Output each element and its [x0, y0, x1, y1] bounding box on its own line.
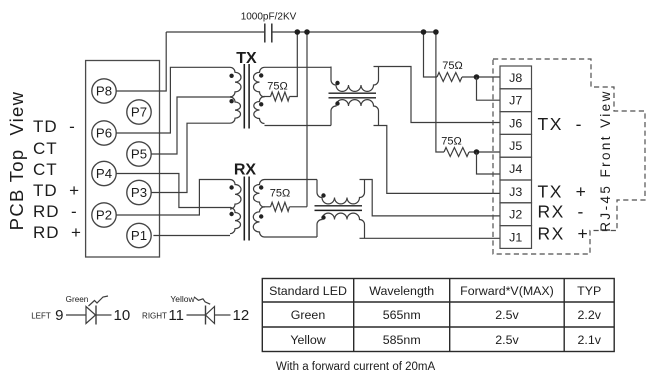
RJ-45 jack dashed outline [493, 59, 645, 254]
svg-text:TYP: TYP [577, 284, 601, 298]
wire P5 to TX primary center tap [151, 97, 231, 154]
svg-text:75Ω: 75Ω [270, 188, 290, 200]
pin P6 [92, 121, 116, 145]
svg-text:TD -: TD - [33, 117, 76, 136]
transformer T2 RX secondary winding upper half [253, 180, 264, 208]
wire TX secondary center tap to resistor R1 [264, 96, 271, 98]
wire RX secondary center tap to resistor R2 [264, 206, 271, 208]
wire R1 to top rail [290, 32, 298, 97]
svg-text:TX -: TX - [538, 114, 583, 134]
wire rail end down to resistor R4 [436, 32, 444, 152]
connector pin J7 [500, 89, 532, 112]
wire R4 to J5 [469, 151, 500, 153]
transformer T1 TX primary winding upper half [230, 67, 241, 97]
svg-text:P7: P7 [131, 104, 147, 119]
connector pin J8 [500, 66, 532, 89]
svg-text:PCB Top View: PCB Top View [6, 91, 27, 231]
resistor R1 75 ohm (TX) [271, 92, 290, 101]
svg-text:With a forward current of 20mA: With a forward current of 20mA [276, 361, 435, 373]
resistor R2 75 ohm (RX) [271, 202, 290, 211]
svg-text:TX +: TX + [538, 182, 588, 202]
wire TX secondary top to choke L1 [265, 66, 332, 68]
svg-text:565nm: 565nm [383, 308, 421, 322]
transformer T2 RX primary polarity dots [229, 185, 233, 216]
LED D1 light squiggle arrow [89, 296, 109, 306]
svg-text:P4: P4 [96, 166, 112, 181]
svg-text:P8: P8 [96, 84, 112, 99]
wire R2 to rail vertical [290, 206, 308, 208]
svg-text:12: 12 [233, 307, 250, 324]
pin P3 [127, 180, 151, 204]
resistor R3 75 ohm (J8/J7) [437, 73, 462, 82]
connector pin J6 [500, 112, 532, 135]
svg-text:P5: P5 [131, 146, 147, 161]
svg-text:RJ-45 Front View: RJ-45 Front View [598, 89, 613, 231]
svg-text:10: 10 [114, 307, 131, 324]
pin P2 [92, 203, 116, 227]
pin P8 [92, 79, 116, 103]
svg-text:P2: P2 [96, 207, 112, 222]
wire TX- : choke L1 top to J6 [374, 67, 501, 123]
LED D2 cathode bar [205, 306, 207, 325]
wire P2 to RX primary top [116, 180, 230, 216]
svg-text:Green: Green [291, 308, 326, 322]
choke L2 bottom winding [317, 213, 365, 238]
svg-text:75Ω: 75Ω [267, 81, 287, 93]
LED D2 yellow diode triangle [206, 307, 215, 324]
transformer T1 TX primary polarity dots [229, 74, 233, 104]
transformer T1 TX secondary polarity dots [259, 73, 263, 106]
svg-text:RD +: RD + [33, 223, 82, 242]
svg-text:CT: CT [33, 139, 58, 158]
connector pin J3 [500, 180, 532, 203]
svg-text:CT: CT [33, 160, 58, 179]
svg-text:J3: J3 [509, 185, 522, 199]
junction dot rail/R2 [304, 29, 310, 35]
svg-text:Standard LED: Standard LED [269, 284, 347, 298]
svg-text:RX -: RX - [538, 202, 585, 222]
wire P8 to rail [116, 32, 166, 91]
svg-text:75Ω: 75Ω [441, 136, 461, 148]
svg-text:585nm: 585nm [383, 333, 421, 347]
transformer T1 TX core [244, 64, 249, 129]
svg-text:11: 11 [168, 307, 184, 324]
svg-text:2.5v: 2.5v [495, 333, 519, 347]
choke L1 core [329, 93, 377, 98]
svg-text:J1: J1 [509, 230, 522, 244]
wire rail down to R2 (RX) [306, 32, 308, 207]
choke L1 bottom winding [331, 100, 379, 126]
svg-text:75Ω: 75Ω [442, 60, 462, 72]
pin P1 [127, 223, 151, 247]
svg-text:J4: J4 [509, 162, 522, 176]
wire P3 to TX primary bottom [151, 123, 230, 192]
svg-text:P1: P1 [131, 228, 147, 243]
capacitor C1 1000pF/2KV [265, 24, 272, 43]
svg-text:RX: RX [234, 162, 257, 179]
wire R3 to J8 [462, 76, 500, 78]
svg-text:2.2v: 2.2v [577, 308, 601, 322]
junction dot rail/R3 [421, 29, 427, 35]
wire RX secondary top to choke L2 [265, 179, 318, 181]
svg-text:J6: J6 [509, 116, 522, 130]
wire junction down to J4 [477, 152, 501, 174]
svg-text:LEFT: LEFT [31, 312, 51, 321]
transformer T1 TX secondary winding lower half [254, 97, 265, 124]
svg-text:Yellow: Yellow [170, 294, 195, 304]
svg-text:P3: P3 [131, 185, 147, 200]
svg-text:J7: J7 [509, 94, 522, 108]
svg-text:Yellow: Yellow [290, 333, 325, 347]
wire rail down to resistor R3 [424, 32, 438, 77]
transformer T1 TX secondary winding upper half [253, 67, 264, 97]
svg-text:TD +: TD + [33, 181, 80, 200]
LED D1 green diode triangle [86, 307, 96, 324]
svg-text:J8: J8 [509, 71, 522, 85]
svg-text:Green: Green [66, 295, 89, 304]
wire LED D1 to pin 10 [96, 314, 112, 316]
transformer T2 RX primary winding lower half [230, 208, 241, 234]
connector pin J5 [500, 134, 532, 157]
svg-text:TX: TX [236, 50, 257, 67]
connector pin J4 [500, 157, 532, 180]
svg-text:RD -: RD - [33, 202, 78, 221]
wire P1 to RX primary bottom [153, 235, 230, 237]
transformer T2 RX secondary winding lower half [253, 207, 264, 237]
transformer T2 RX secondary polarity dots [259, 185, 263, 218]
wire TX+ : choke L1 bottom to J3 [374, 126, 501, 194]
LED D1 cathode bar [95, 306, 97, 325]
wire junction down to J7 [477, 77, 501, 100]
choke L1 polarity dots [335, 81, 339, 106]
LED D2 light squiggle arrow [194, 297, 210, 304]
resistor R4 75 ohm (J5/J4) [444, 148, 469, 157]
wire pin 9 to LED D1 [66, 314, 86, 316]
junction dot rail/R1 [295, 29, 301, 35]
transformer T2 RX core [244, 177, 249, 241]
pin P5 [127, 142, 151, 166]
svg-text:RIGHT: RIGHT [142, 312, 167, 321]
wire LED D2 to pin 12 [215, 314, 231, 316]
svg-text:9: 9 [55, 307, 63, 324]
svg-text:P6: P6 [96, 125, 112, 140]
junction dot R4/J5/J4 [474, 149, 480, 155]
wire P6 to TX primary top [116, 67, 230, 133]
wire RX secondary bottom to choke L2 [265, 236, 318, 238]
choke L2 polarity dots [321, 193, 325, 219]
wire P4 to RX primary center tap [116, 174, 231, 208]
pin P7 [127, 100, 151, 124]
LED specification table [262, 279, 614, 352]
choke L1 (TX) top winding [331, 67, 379, 92]
svg-text:1000pF/2KV: 1000pF/2KV [241, 12, 297, 23]
choke L2 (RX) top winding [317, 180, 365, 204]
wire top rail left of capacitor [166, 31, 265, 33]
junction dot rail end [433, 29, 439, 35]
svg-text:2.1v: 2.1v [577, 333, 601, 347]
transformer T2 RX primary winding upper half [230, 180, 241, 210]
wire RX- : choke L2 top to J2 [360, 180, 501, 216]
svg-text:RX +: RX + [538, 224, 590, 244]
svg-text:Wavelength: Wavelength [369, 284, 434, 298]
wire TX secondary bottom to choke L1 [265, 125, 332, 127]
choke L2 core [315, 206, 363, 211]
wire RX+ : choke L2 bottom to J1 [360, 237, 501, 239]
connector pin J2 [500, 203, 532, 226]
wire pin 11 to LED D2 [187, 314, 206, 316]
connector pin J1 [500, 226, 532, 249]
junction dot R3/J8/J7 [474, 74, 480, 80]
svg-text:J5: J5 [509, 139, 522, 153]
svg-text:2.5v: 2.5v [495, 308, 519, 322]
svg-text:J2: J2 [509, 208, 522, 222]
svg-text:Forward*V(MAX): Forward*V(MAX) [460, 284, 554, 298]
wire top rail right of capacitor [272, 31, 436, 33]
transformer T1 TX primary winding lower half [230, 97, 241, 123]
pin header box [86, 61, 160, 258]
pin P4 [92, 161, 116, 185]
